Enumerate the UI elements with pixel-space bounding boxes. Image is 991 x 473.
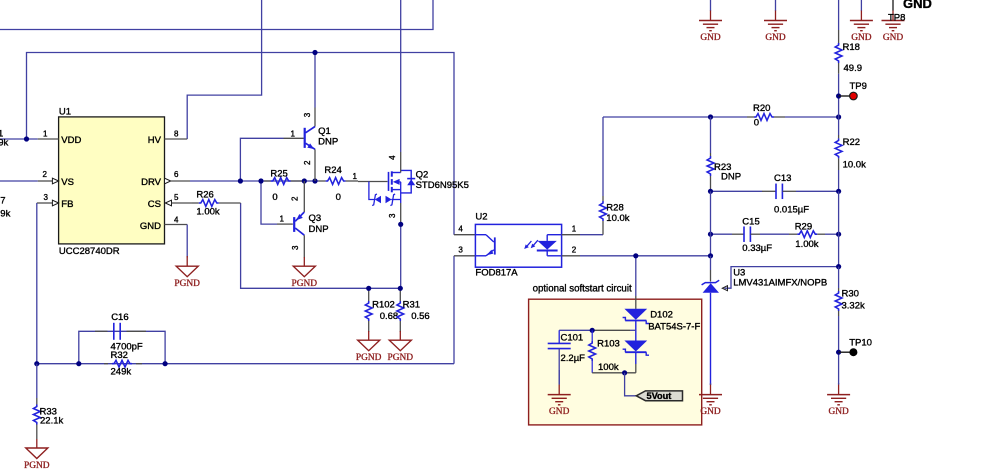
U1 pin 2 stub	[38, 178, 59, 184]
shunt regulator U3	[702, 256, 720, 385]
resistor R22	[835, 117, 842, 191]
wire R22 bus segment	[838, 191, 840, 234]
label Q2 pin 4	[388, 155, 397, 160]
wire Q3 base net	[261, 181, 277, 224]
wire DRV net	[190, 180, 319, 182]
junction C13 right	[836, 189, 841, 194]
label R25 refdes	[270, 168, 287, 179]
svg-text:GND: GND	[549, 407, 570, 417]
label cut-off value 9k lower	[0, 209, 10, 220]
junction CS-R102	[366, 286, 371, 291]
resistor R24	[319, 178, 359, 185]
svg-text:3: 3	[458, 245, 463, 254]
label U1 pin number 5	[174, 193, 179, 202]
svg-text:R103: R103	[597, 339, 620, 350]
svg-text:DRV: DRV	[141, 177, 162, 188]
svg-text:1: 1	[353, 172, 358, 181]
label R29 refdes	[795, 222, 812, 233]
label Q3 pin 3	[291, 245, 300, 250]
wire U1 GND pin drop	[186, 225, 188, 258]
resistor R103	[589, 330, 596, 373]
resistor R32	[104, 360, 142, 367]
label R18 refdes	[843, 42, 860, 53]
label C13 value 0.015uF	[774, 204, 809, 215]
svg-text:0.56: 0.56	[411, 311, 430, 322]
label R25 value 0	[272, 192, 277, 203]
label R24 right net pin 1	[353, 172, 358, 181]
label cut-off ref 7	[0, 195, 5, 206]
svg-text:0: 0	[754, 118, 759, 129]
label U2 pin number 1	[572, 225, 577, 234]
svg-text:3: 3	[388, 213, 397, 218]
label R29 value 1.00k	[795, 239, 818, 250]
label U1 pin name CS	[148, 199, 161, 210]
wire VS net	[0, 180, 38, 182]
svg-text:49.9: 49.9	[844, 63, 863, 74]
capacitor C15	[732, 226, 760, 242]
svg-text:R22: R22	[843, 137, 860, 148]
svg-text:C13: C13	[774, 173, 791, 184]
resistor R33	[33, 364, 40, 439]
svg-text:2: 2	[572, 245, 577, 254]
svg-text:2.2µF: 2.2µF	[561, 353, 586, 364]
svg-text:3: 3	[291, 245, 300, 250]
label U1 pin name DRV	[141, 177, 162, 188]
svg-text:CS: CS	[148, 199, 161, 210]
svg-text:10.0k: 10.0k	[606, 213, 629, 224]
svg-text:R30: R30	[842, 289, 859, 300]
svg-text:GND: GND	[765, 33, 786, 43]
wire Q2 drain net	[400, 0, 402, 152]
wire 5Vout drop	[625, 373, 637, 396]
label Q2 pin 3	[388, 213, 397, 218]
label big GND net	[903, 0, 932, 11]
label R23 value DNP	[721, 172, 741, 183]
resistor R29	[789, 231, 825, 238]
svg-text:R29: R29	[795, 222, 812, 233]
transistor Q3	[277, 181, 304, 258]
junction Q1 collector node	[312, 50, 317, 55]
label R28 value 10.0k	[606, 213, 629, 224]
label Q3 pin 1	[280, 214, 285, 223]
svg-text:PGND: PGND	[388, 353, 414, 363]
label Q1 pin 2	[303, 160, 312, 165]
wire VDD bias net	[0, 53, 454, 235]
junction R20 left node	[708, 114, 713, 119]
svg-text:1: 1	[280, 214, 285, 223]
wire CS net	[241, 203, 401, 288]
label U1 pin name FB	[61, 199, 73, 210]
diode D102	[623, 309, 649, 373]
svg-text:VS: VS	[61, 177, 74, 188]
label U1 value UCC28740DR	[59, 246, 120, 257]
testpoint TP9	[839, 92, 858, 100]
svg-text:GND: GND	[140, 221, 161, 232]
wire U2 pin2 net	[562, 255, 711, 257]
resistor R31	[397, 288, 404, 332]
wire Q1 base net	[240, 138, 283, 181]
label R20 refdes	[753, 103, 770, 114]
label R28 refdes	[606, 202, 623, 213]
svg-text:HV: HV	[148, 135, 162, 146]
junction DRV-Q1 emitter	[312, 178, 317, 183]
label R20 value 0	[754, 118, 759, 129]
svg-text:GND: GND	[828, 407, 849, 417]
label R103 value 100k	[598, 362, 619, 373]
svg-text:2: 2	[303, 160, 312, 165]
svg-text:STD6N95K5: STD6N95K5	[416, 180, 469, 191]
svg-text:LMV431AIMFX/NOPB: LMV431AIMFX/NOPB	[733, 277, 827, 288]
svg-text:0.015µF: 0.015µF	[774, 204, 809, 215]
svg-text:R26: R26	[196, 190, 213, 201]
wire C16 branch	[79, 331, 165, 363]
IC U1 body	[59, 117, 165, 244]
label C16 value 4700pF	[111, 341, 143, 352]
label TP9	[850, 81, 867, 92]
wire R28 top net	[603, 116, 711, 118]
transistor Q1	[284, 53, 316, 181]
junction 5Vout tap	[622, 370, 627, 375]
label R30 refdes	[842, 289, 859, 300]
label Q1 refdes	[318, 126, 331, 137]
label Q3 pin 2	[290, 196, 299, 201]
ground PGND under R33	[24, 439, 50, 471]
svg-text:DNP: DNP	[721, 172, 741, 183]
svg-text:R25: R25	[270, 168, 287, 179]
optocoupler U2	[475, 224, 561, 267]
ground PGND under R102	[356, 331, 382, 363]
wire FB bottom net	[37, 363, 454, 365]
svg-text:PGND: PGND	[174, 279, 200, 289]
U1 pin 6 stub	[165, 178, 191, 184]
label R32 value 249k	[111, 366, 132, 377]
resistor R30	[835, 267, 842, 353]
svg-text:UCC28740DR: UCC28740DR	[59, 246, 120, 257]
svg-text:optional softstart circuit: optional softstart circuit	[533, 283, 632, 294]
junction softstart mid	[590, 328, 595, 333]
junction DRV-Q1 base	[238, 178, 243, 183]
svg-text:C15: C15	[742, 217, 759, 228]
label R102 value 0.68	[380, 311, 399, 322]
svg-text:5: 5	[174, 193, 179, 202]
svg-text:TP8: TP8	[888, 12, 905, 23]
label R22 refdes	[843, 137, 860, 148]
svg-text:8: 8	[174, 130, 179, 139]
svg-text:FB: FB	[61, 199, 73, 210]
label R102 refdes	[372, 300, 395, 311]
label U1 pin name HV	[148, 135, 162, 146]
resistor R18	[835, 0, 842, 96]
svg-text:0: 0	[336, 192, 341, 203]
svg-text:R20: R20	[753, 103, 770, 114]
svg-text:0: 0	[272, 192, 277, 203]
label U3 value LMV431AIMFX/NOPB	[733, 277, 827, 288]
svg-text:9k: 9k	[0, 137, 8, 148]
wire C13 row net	[711, 190, 839, 192]
label C101 refdes	[561, 332, 584, 343]
label R30 value 3.32k	[842, 301, 865, 312]
svg-text:4: 4	[174, 215, 179, 224]
svg-text:D102: D102	[650, 310, 673, 321]
wire softstart bottom net	[592, 372, 636, 374]
label U1 refdes	[59, 107, 71, 118]
svg-text:10.0k: 10.0k	[843, 160, 866, 171]
svg-text:9k: 9k	[0, 209, 10, 220]
junction TP10 node	[836, 350, 841, 355]
svg-text:R28: R28	[606, 202, 623, 213]
svg-text:GND: GND	[700, 33, 721, 43]
label U1 pin number 3	[44, 193, 49, 202]
U1 pin 4 stub	[165, 224, 188, 226]
label R24 refdes	[324, 165, 341, 176]
svg-text:1.00k: 1.00k	[196, 206, 219, 217]
wire pin2 bus segment	[710, 234, 712, 256]
svg-text:U2: U2	[475, 211, 487, 222]
svg-text:FOD817A: FOD817A	[475, 268, 518, 279]
label Q1 value DNP	[318, 137, 338, 148]
U1 pin 3 stub	[37, 200, 59, 206]
svg-text:1: 1	[291, 129, 296, 138]
ground GND TP8	[882, 0, 905, 43]
U1 pin 5 stub	[165, 200, 192, 206]
label C13 refdes	[774, 173, 791, 184]
junction DRV-Q3	[302, 178, 307, 183]
label R24 value 0	[336, 192, 341, 203]
wire U3 ref net	[725, 267, 839, 289]
label R33 refdes	[40, 406, 57, 417]
label R31 refdes	[403, 300, 420, 311]
svg-text:TP10: TP10	[849, 337, 872, 348]
label U2 pin number 2	[572, 245, 577, 254]
svg-text:3: 3	[303, 112, 312, 117]
label D102 value BAT54S-7-F	[648, 322, 700, 333]
svg-text:100k: 100k	[598, 362, 619, 373]
label U1 pin number 4	[174, 215, 179, 224]
label C15 value 0.33uF	[742, 243, 772, 254]
svg-text:4: 4	[458, 225, 463, 234]
wire R20 row net	[711, 116, 839, 118]
label U1 pin name VS	[61, 177, 74, 188]
capacitor C16	[95, 323, 146, 340]
label Q2 value STD6N95K5	[416, 180, 469, 191]
junction Q2 source node	[398, 222, 403, 227]
svg-text:U1: U1	[59, 107, 71, 118]
net flag 5Vout	[636, 391, 682, 401]
label U2 pin number 3	[458, 245, 463, 254]
label Q3 value DNP	[309, 224, 329, 235]
wire R23 bus segment	[710, 191, 712, 234]
svg-text:1.00k: 1.00k	[795, 239, 818, 250]
label U1 pin name VDD	[61, 135, 81, 146]
label cut-off ref 1	[0, 129, 3, 140]
label Q2 refdes	[416, 170, 429, 181]
label optional softstart circuit	[533, 283, 632, 294]
svg-text:2: 2	[43, 170, 48, 179]
capacitor C13	[762, 184, 796, 200]
svg-text:GND: GND	[883, 33, 904, 43]
wire C15 row net	[711, 233, 839, 235]
testpoint TP10	[839, 348, 858, 356]
ground GND under C101	[548, 370, 571, 417]
ground GND top 2	[764, 0, 787, 43]
svg-text:BAT54S-7-F: BAT54S-7-F	[648, 322, 700, 333]
junction FB-R33 node	[34, 361, 39, 366]
svg-text:PGND: PGND	[356, 353, 382, 363]
svg-text:1: 1	[43, 130, 48, 139]
wire Q2 source to CS	[400, 224, 402, 288]
label U1 pin number 2	[43, 170, 48, 179]
junction R20 right node	[836, 114, 841, 119]
label U2 refdes	[475, 211, 487, 222]
ground PGND under R31	[388, 331, 414, 363]
label Q1 pin 3	[303, 112, 312, 117]
svg-text:R31: R31	[403, 300, 420, 311]
junction VDD node	[24, 136, 29, 141]
label C15 refdes	[742, 217, 759, 228]
resistor R25	[264, 178, 303, 185]
label U1 pin number 1	[43, 130, 48, 139]
svg-text:R32: R32	[111, 350, 128, 361]
wire TP9 to R20 segment	[838, 96, 840, 117]
svg-text:3: 3	[44, 193, 49, 202]
label U1 pin number 6	[174, 170, 179, 179]
label C16 refdes	[111, 312, 128, 323]
svg-text:0.33µF: 0.33µF	[742, 243, 772, 254]
svg-text:7: 7	[0, 195, 5, 206]
junction U3 ref node	[836, 264, 841, 269]
svg-text:6: 6	[174, 170, 179, 179]
svg-text:DNP: DNP	[309, 224, 329, 235]
wire U2 pin1 stub	[562, 234, 603, 236]
svg-text:Q3: Q3	[309, 213, 322, 224]
wire TP10 drop	[838, 352, 840, 384]
wire U2 pin3 stub	[454, 255, 475, 257]
ground GND under R30	[827, 383, 850, 417]
svg-text:5Vout: 5Vout	[647, 391, 672, 401]
label Q3 refdes	[309, 213, 322, 224]
label R32 refdes	[111, 350, 128, 361]
wire FB vertical	[36, 203, 38, 364]
junction CS-R31	[398, 286, 403, 291]
resistor R28	[600, 117, 607, 235]
resistor R23	[707, 117, 714, 191]
ground PGND under Q3	[292, 257, 318, 289]
svg-text:3.32k: 3.32k	[842, 301, 865, 312]
junction C13 left	[708, 189, 713, 194]
resistor R20	[747, 114, 785, 121]
junction C16 left node	[76, 361, 81, 366]
wire softstart mid net	[559, 329, 636, 331]
label D102 refdes	[650, 310, 673, 321]
ground GND top 1	[699, 0, 722, 43]
svg-text:C16: C16	[111, 312, 128, 323]
svg-text:R102: R102	[372, 300, 395, 311]
svg-text:0.68: 0.68	[380, 311, 399, 322]
label R26 value 1.00k	[196, 206, 219, 217]
svg-text:R18: R18	[843, 42, 860, 53]
label R31 value 0.56	[411, 311, 430, 322]
svg-text:4: 4	[388, 155, 397, 160]
label U2 value FOD817A	[475, 268, 518, 279]
label R103 refdes	[597, 339, 620, 350]
svg-text:22.1k: 22.1k	[40, 415, 63, 426]
wire top bulk net	[0, 0, 433, 30]
junction DRV-R25 left	[258, 178, 263, 183]
ground PGND under U1	[174, 256, 200, 289]
label R23 refdes	[714, 162, 731, 173]
ground GND under U3	[699, 383, 722, 417]
U1 pin 8 stub	[165, 138, 188, 140]
svg-text:2: 2	[290, 196, 299, 201]
label C101 value 2.2uF	[561, 353, 586, 364]
svg-text:GND: GND	[851, 33, 872, 43]
U3 ref arrowhead	[722, 286, 727, 291]
resistor R26	[192, 200, 241, 207]
transistor Q2 MOSFET	[358, 152, 415, 224]
label R33 value 22.1k	[40, 415, 63, 426]
label TP8	[888, 12, 905, 23]
svg-text:Q1: Q1	[318, 126, 331, 137]
svg-text:TP9: TP9	[850, 81, 867, 92]
ground GND top 3	[850, 0, 873, 43]
junction TP9 node	[836, 93, 841, 98]
svg-text:GND: GND	[903, 0, 932, 11]
label U2 pin number 4	[458, 225, 463, 234]
capacitor C101	[548, 330, 571, 384]
svg-text:249k: 249k	[111, 366, 132, 377]
svg-text:Q2: Q2	[416, 170, 429, 181]
wire D102 drop	[635, 256, 637, 309]
svg-text:GND: GND	[700, 407, 721, 417]
svg-text:DNP: DNP	[318, 137, 338, 148]
U1 pin 1 stub	[38, 138, 59, 140]
svg-text:PGND: PGND	[24, 461, 50, 471]
wire U2 pin4 stub	[454, 234, 475, 236]
label cut-off value 9k	[0, 137, 8, 148]
label R18 value 49.9	[844, 63, 863, 74]
svg-text:1: 1	[572, 225, 577, 234]
label U3 refdes	[733, 267, 745, 278]
resistor R102	[365, 288, 372, 332]
svg-text:R24: R24	[324, 165, 341, 176]
label TP10	[849, 337, 872, 348]
label U1 pin number 8	[174, 130, 179, 139]
junction D102 top node	[633, 253, 638, 258]
softstart box	[529, 299, 702, 425]
label R22 value 10.0k	[843, 160, 866, 171]
wire HV riser	[187, 0, 261, 139]
junction C15 left	[708, 232, 713, 237]
junction U2 pin2 bus	[708, 253, 713, 258]
junction R29 right	[836, 232, 841, 237]
svg-text:VDD: VDD	[61, 135, 81, 146]
junction C16 right node	[163, 361, 168, 366]
wire R29 bus segment	[838, 234, 840, 266]
label U1 pin name GND	[140, 221, 161, 232]
label Q1 pin 1	[291, 129, 296, 138]
wire FB riser to U2 pin3	[453, 256, 455, 364]
label R26 refdes	[196, 190, 213, 201]
svg-text:C101: C101	[561, 332, 584, 343]
